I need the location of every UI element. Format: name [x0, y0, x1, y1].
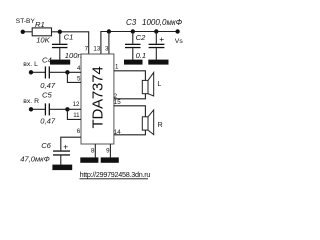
svg-text:C2: C2	[136, 33, 146, 42]
svg-text:R: R	[158, 122, 163, 129]
wire speaker L to pin 2	[114, 94, 145, 99]
capacitor C6 electrolytic	[20, 141, 70, 165]
wire pin 11	[67, 109, 81, 119]
svg-text:5: 5	[77, 76, 81, 83]
svg-text:0,47: 0,47	[40, 116, 56, 125]
svg-text:0,47: 0,47	[40, 81, 56, 90]
svg-text:13: 13	[93, 45, 100, 52]
svg-text:8: 8	[91, 148, 95, 155]
svg-text:http://299792458.3dn.ru: http://299792458.3dn.ru	[80, 170, 151, 179]
svg-text:9: 9	[106, 148, 110, 155]
wire R1 to pin7 corner	[52, 31, 89, 33]
svg-text:100n: 100n	[65, 51, 82, 60]
svg-text:1: 1	[115, 63, 119, 70]
svg-text:R1: R1	[35, 20, 45, 29]
svg-text:TDA7374: TDA7374	[90, 67, 107, 129]
wire pin 7 drop	[88, 31, 90, 54]
node junction R1/C1	[58, 30, 62, 34]
svg-text:+: +	[159, 34, 164, 44]
wire pin 15 to speaker R	[114, 106, 145, 117]
wire C4 to pin 4	[50, 71, 82, 73]
svg-text:+: +	[63, 142, 68, 152]
speaker R	[142, 110, 162, 135]
svg-text:12: 12	[73, 101, 80, 108]
ground pin 9	[101, 157, 119, 162]
wire pin 8 stub	[94, 144, 96, 157]
svg-text:C4: C4	[42, 55, 52, 64]
resistor R1	[32, 20, 51, 45]
svg-text:47,0мкФ: 47,0мкФ	[20, 155, 50, 164]
svg-text:14: 14	[114, 129, 121, 136]
svg-text:Vs: Vs	[175, 38, 184, 45]
svg-text:C1: C1	[64, 32, 74, 41]
wire pin 3 drop	[108, 32, 110, 55]
capacitor C3 electrolytic	[149, 29, 165, 59]
node ST-BY terminal	[16, 18, 36, 34]
wire pin 5	[67, 72, 81, 82]
label C3 value top	[126, 18, 183, 27]
svg-text:вх. L: вх. L	[23, 61, 38, 68]
ground C6	[52, 165, 72, 171]
svg-text:11: 11	[73, 112, 80, 119]
wire pin 13 drop and supply rail	[101, 32, 178, 55]
svg-text:C6: C6	[41, 141, 51, 150]
svg-text:вх. R: вх. R	[23, 98, 39, 105]
node junction pins 4/5	[65, 70, 69, 74]
wire ST-BY to R1	[25, 31, 32, 33]
capacitor C5	[40, 91, 56, 126]
capacitor C2	[125, 29, 146, 60]
svg-text:0.1: 0.1	[136, 51, 147, 60]
svg-text:4: 4	[77, 65, 81, 72]
svg-text:6: 6	[77, 128, 81, 135]
svg-text:1000,0мкФ: 1000,0мкФ	[142, 18, 183, 27]
node junction pins 12/11	[65, 107, 69, 111]
svg-text:C3: C3	[126, 18, 137, 27]
svg-text:10K: 10K	[36, 36, 50, 45]
capacitor C1	[52, 32, 82, 60]
svg-text:7: 7	[85, 45, 89, 52]
wire input R	[33, 108, 45, 110]
node input L terminal	[23, 61, 38, 75]
speaker L	[142, 72, 161, 96]
wire C5 to pin 12	[50, 108, 82, 110]
svg-text:ST-BY: ST-BY	[16, 18, 36, 25]
capacitor C4	[40, 55, 56, 90]
label site url	[80, 170, 151, 179]
ground C1	[50, 60, 70, 65]
svg-text:C5: C5	[42, 91, 52, 100]
svg-text:3: 3	[105, 45, 109, 52]
ground C2	[124, 60, 143, 65]
wire pin 6	[61, 137, 81, 150]
wire speaker R to pin 14	[114, 130, 145, 135]
wire pin 9 stub	[109, 144, 111, 157]
node input R terminal	[23, 98, 39, 111]
svg-text:15: 15	[114, 99, 121, 106]
ground pin 8	[80, 157, 98, 162]
wire input L	[33, 71, 45, 73]
node junction pin3	[107, 29, 111, 33]
wire pin 1 to speaker L	[114, 71, 145, 81]
IC U1 TDA7374	[81, 54, 114, 144]
node Vs terminal	[175, 29, 184, 45]
svg-text:L: L	[157, 81, 161, 88]
ground C3	[148, 60, 168, 65]
